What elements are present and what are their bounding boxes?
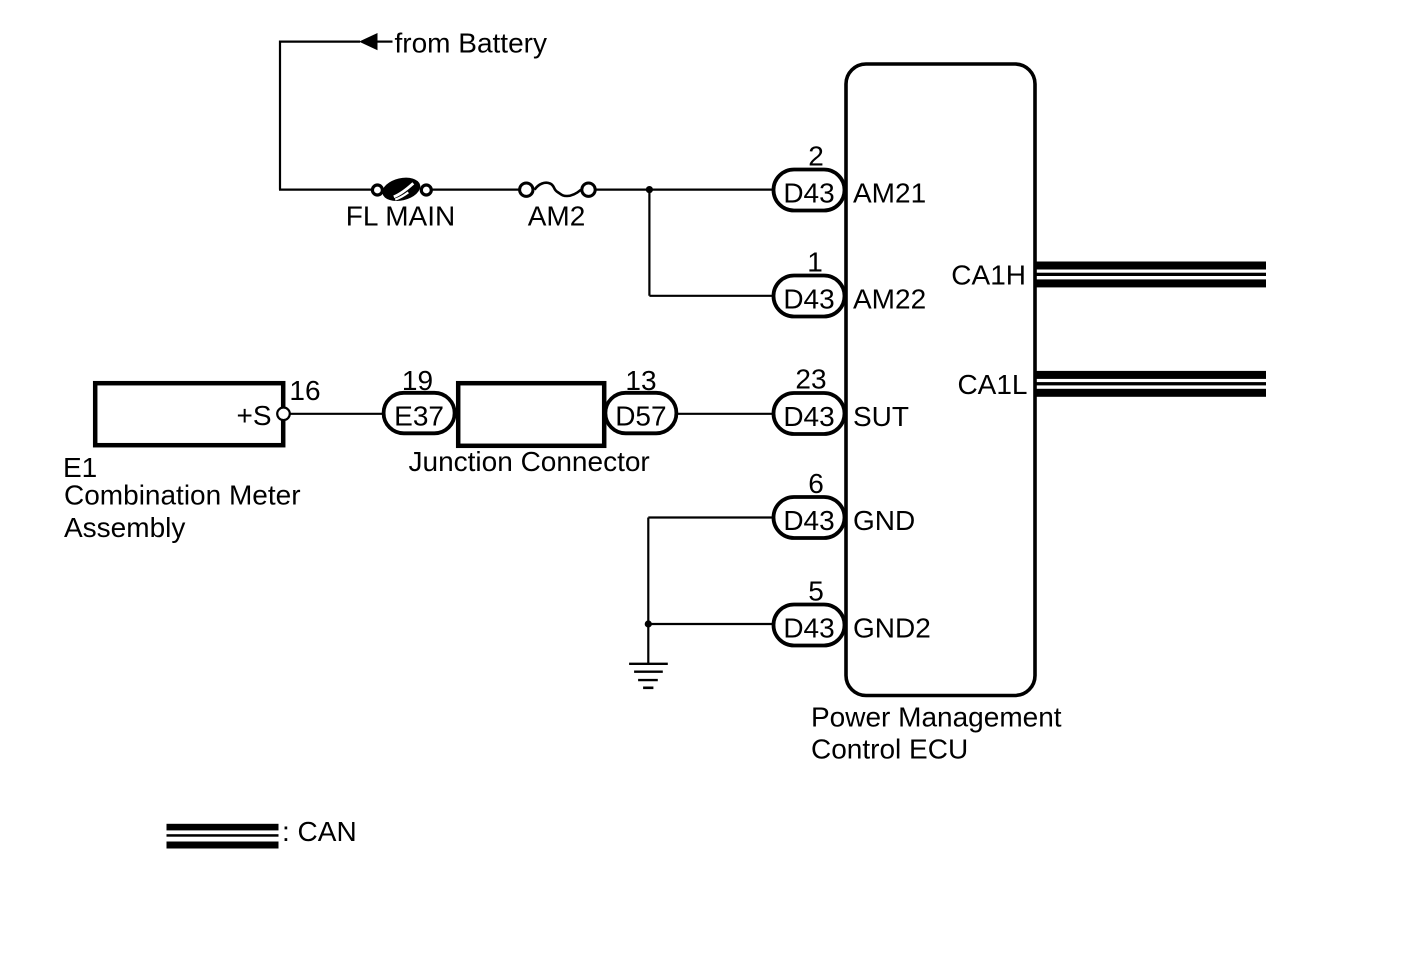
svg-text:AM22: AM22 (853, 284, 926, 315)
svg-text:FL MAIN: FL MAIN (346, 201, 455, 232)
svg-text:Power Management: Power Management (811, 702, 1062, 733)
svg-text:GND: GND (853, 505, 915, 536)
svg-text:2: 2 (808, 141, 824, 172)
svg-text:GND2: GND2 (853, 613, 931, 644)
svg-text:D43: D43 (783, 401, 834, 432)
svg-text:from Battery: from Battery (395, 28, 547, 59)
svg-text:D43: D43 (783, 284, 834, 315)
svg-text:E37: E37 (394, 401, 444, 432)
svg-text:+S: +S (236, 400, 271, 431)
svg-text:Combination Meter: Combination Meter (64, 480, 301, 511)
svg-text:13: 13 (625, 365, 656, 396)
svg-text:CA1H: CA1H (951, 260, 1026, 291)
svg-text:23: 23 (795, 364, 826, 395)
svg-text:D43: D43 (783, 613, 834, 644)
svg-text:SUT: SUT (853, 401, 909, 432)
svg-text:: CAN: : CAN (282, 816, 357, 847)
svg-text:D43: D43 (783, 505, 834, 536)
svg-text:16: 16 (289, 375, 320, 406)
svg-text:1: 1 (807, 247, 823, 278)
svg-text:6: 6 (808, 468, 824, 499)
svg-text:D43: D43 (783, 178, 834, 209)
svg-text:AM21: AM21 (853, 178, 926, 209)
svg-text:5: 5 (808, 576, 824, 607)
svg-text:19: 19 (402, 365, 433, 396)
svg-text:AM2: AM2 (528, 201, 586, 232)
svg-text:Assembly: Assembly (64, 512, 185, 543)
svg-text:CA1L: CA1L (957, 369, 1027, 400)
svg-text:Control ECU: Control ECU (811, 734, 968, 765)
svg-text:Junction Connector: Junction Connector (409, 446, 650, 477)
svg-text:D57: D57 (615, 401, 666, 432)
svg-text:E1: E1 (63, 452, 97, 483)
